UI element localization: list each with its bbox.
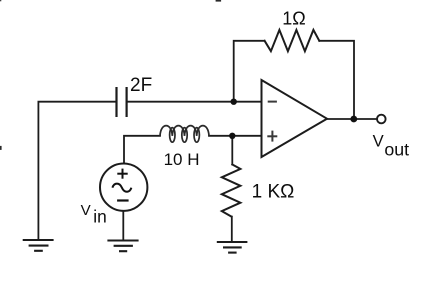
svg-text:in: in	[93, 206, 106, 226]
svg-text:2F: 2F	[130, 75, 152, 96]
svg-text:V: V	[373, 131, 384, 150]
svg-text:10 H: 10 H	[164, 150, 200, 169]
svg-text:1 KΩ: 1 KΩ	[252, 181, 295, 202]
svg-text:V: V	[81, 202, 91, 219]
svg-text:1Ω: 1Ω	[282, 9, 305, 29]
svg-text:out: out	[384, 139, 409, 159]
